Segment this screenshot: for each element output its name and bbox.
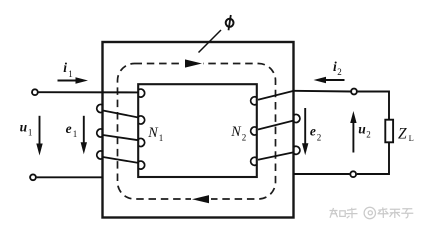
flux path dashed loop — [118, 64, 276, 200]
svg-text:u: u — [358, 122, 366, 137]
winding N1 curl L2 — [97, 129, 103, 137]
winding N1 curl L3 — [97, 151, 103, 159]
svg-text:1: 1 — [73, 129, 78, 139]
transformer core outer edge — [103, 42, 294, 218]
winding N2 curl O2 — [294, 146, 300, 154]
winding N1 turn wire 1 — [103, 111, 139, 118]
current arrow i1 (points right) — [58, 77, 89, 84]
emf arrow e1 (points down) — [81, 116, 87, 155]
current arrow i2 (points left) — [314, 77, 345, 84]
svg-text:i: i — [63, 60, 67, 75]
flux label phi — [226, 15, 234, 30]
winding N2 turn wire 2 — [258, 152, 294, 160]
flux arrow top (points right) — [183, 59, 203, 67]
wire bottom-left (terminal to core edge) — [37, 176, 103, 178]
svg-text:N: N — [147, 125, 159, 141]
winding N1 curl R2 — [139, 116, 145, 124]
svg-text:Z: Z — [398, 126, 407, 143]
wire load bottom to terminal — [357, 142, 389, 174]
svg-text:2: 2 — [366, 130, 371, 140]
voltage arrow u2 (points up) — [350, 111, 356, 153]
svg-text:e: e — [66, 121, 72, 136]
svg-text:L: L — [409, 133, 414, 143]
load Z_L box — [385, 120, 393, 143]
svg-text:u: u — [20, 120, 28, 135]
voltage arrow u1 (points down) — [36, 116, 42, 156]
winding N1 turn wire 3 — [103, 157, 139, 163]
winding N2 turn wire 1 — [258, 121, 294, 130]
phi pointer line — [199, 30, 222, 53]
winding N2 curl I1 — [251, 97, 257, 105]
terminal bottom-right — [350, 171, 356, 177]
winding N2 entry wire — [258, 91, 294, 100]
winding N1 turn wire 2 — [103, 135, 139, 140]
winding N1 curl R4 — [139, 161, 145, 169]
terminal bottom-left — [30, 174, 36, 180]
emf arrow e2 (points down) — [302, 108, 308, 155]
svg-text:e: e — [310, 123, 316, 138]
wire top-right (winding N2 to terminal) — [294, 90, 351, 93]
svg-text:1: 1 — [159, 133, 164, 143]
wire bottom-right (terminal to winding N2) — [294, 173, 350, 175]
svg-text:1: 1 — [68, 69, 73, 79]
winding N1 curl R1 — [139, 89, 145, 97]
transformer core inner window — [138, 84, 257, 177]
svg-text:1: 1 — [28, 127, 33, 137]
svg-text:2: 2 — [317, 133, 322, 143]
flux arrow bottom (points left) — [191, 195, 211, 203]
winding N2 curl O1 — [294, 114, 300, 122]
svg-text:N: N — [230, 124, 242, 140]
winding N2 curl I3 — [251, 157, 257, 165]
wire top-left (terminal to winding N1) — [39, 91, 140, 93]
terminal top-left — [32, 89, 38, 95]
winding N1 curl L1 — [97, 104, 103, 112]
winding N2 curl I2 — [251, 127, 257, 135]
watermark zhihu text — [330, 207, 414, 218]
svg-text:2: 2 — [337, 67, 342, 77]
wire terminal to load top — [358, 92, 389, 120]
svg-text:2: 2 — [242, 133, 247, 143]
terminal top-right — [351, 89, 357, 95]
winding N1 curl R3 — [139, 139, 145, 147]
